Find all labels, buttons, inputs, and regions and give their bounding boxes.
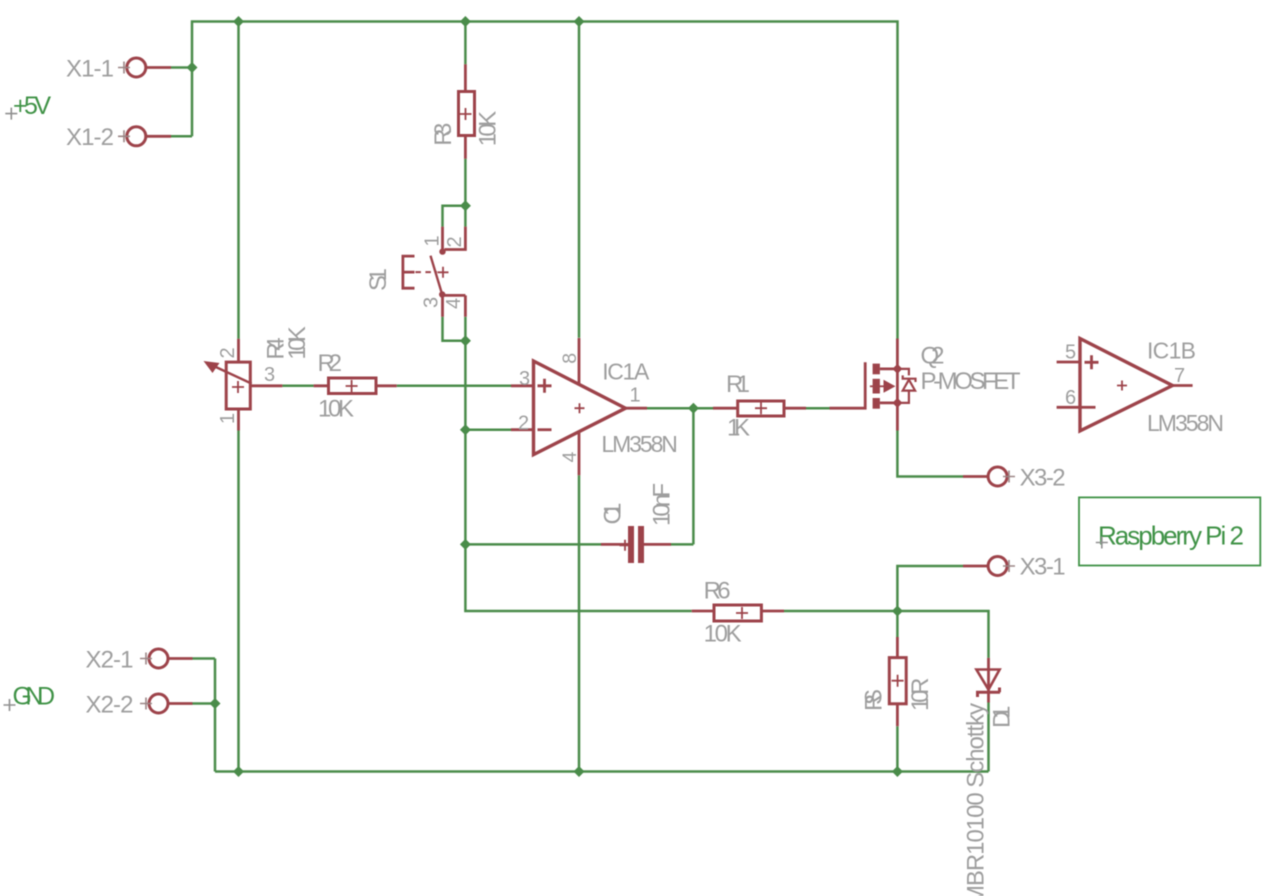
- svg-text:10K: 10K: [704, 621, 742, 648]
- svg-text:R3: R3: [430, 123, 457, 146]
- svg-text:7: 7: [1174, 365, 1185, 387]
- wire R1 to gate: [806, 407, 830, 410]
- connector X3-1: [988, 557, 1007, 576]
- wire R6 right to junction: [784, 610, 897, 613]
- node junction X2-2: [210, 698, 221, 709]
- wire X2-2: [193, 702, 216, 705]
- svg-text:R1: R1: [726, 371, 750, 398]
- op-amp IC1B: [1057, 362, 1193, 407]
- svg-text:+5V: +5V: [13, 92, 51, 120]
- wire X1-1 to vertical: [171, 66, 192, 69]
- svg-text:LM358N: LM358N: [1147, 410, 1224, 436]
- svg-text:5: 5: [1065, 342, 1076, 364]
- svg-text:R6: R6: [704, 578, 731, 605]
- node junction top rail at x=465: [460, 16, 471, 27]
- transistor Q2 P-MOSFET: [830, 362, 866, 408]
- connector X2-2: [149, 694, 168, 713]
- svg-text:1: 1: [422, 235, 444, 246]
- switch S1: [443, 227, 466, 250]
- svg-text:C1: C1: [599, 503, 626, 525]
- svg-text:IC1B: IC1B: [1147, 338, 1196, 364]
- wire X1-2 to vertical: [171, 135, 192, 138]
- svg-text:D1: D1: [988, 706, 1015, 729]
- connector X2-1: [149, 649, 168, 668]
- wire D1 branch: [897, 611, 988, 658]
- svg-text:10nF: 10nF: [648, 483, 675, 526]
- wire X3-1: [897, 566, 963, 611]
- node junction GND rail x=238.5: [233, 766, 244, 777]
- wire D1 bottom: [987, 703, 990, 772]
- potentiometer R4: [237, 339, 240, 431]
- connector X1-1: [127, 58, 146, 77]
- svg-text:GND: GND: [13, 683, 56, 711]
- wire IC1A pin8 supply: [578, 22, 581, 338]
- svg-text:6: 6: [1065, 387, 1076, 409]
- svg-text:X3-1: X3-1: [1020, 554, 1066, 581]
- resistor R6: [692, 610, 784, 613]
- node junction S1 bottom: [460, 335, 471, 346]
- op-amp IC1A: [511, 338, 647, 475]
- svg-text:RS: RS: [861, 689, 888, 711]
- connector origin cross X1-2: [118, 130, 130, 142]
- wire S1 bottom bracket: [443, 317, 466, 341]
- svg-text:8: 8: [559, 353, 581, 364]
- svg-text:LM358N: LM358N: [601, 431, 678, 457]
- wire left vertical upper (to R4): [237, 22, 240, 339]
- wire R3 bottom to S1: [464, 159, 467, 206]
- wire output down to C1 right: [692, 408, 695, 544]
- wire RS bottom: [896, 726, 899, 771]
- svg-text:10K: 10K: [284, 326, 311, 359]
- wire IC1A pin4 to GND rail: [578, 475, 581, 771]
- node junction R6/X3-1/RS/D1: [892, 606, 903, 617]
- node junction GND rail x=897.4: [892, 766, 903, 777]
- resistor R2: [314, 384, 397, 387]
- wire to IC1A pin2: [465, 428, 511, 431]
- node junction GND rail x=579: [574, 766, 585, 777]
- node junction S1 top: [460, 200, 471, 211]
- svg-text:R2: R2: [318, 350, 343, 377]
- svg-text:10K: 10K: [475, 111, 502, 147]
- frame Raspberry Pi 2 box: [1079, 497, 1260, 565]
- svg-text:X2-2: X2-2: [86, 692, 134, 719]
- wire mid vertical S1 to R6: [465, 341, 691, 611]
- connector X1-2: [127, 127, 146, 146]
- connector origin cross X3-2: [1003, 471, 1015, 483]
- connector origin cross X3-1: [1003, 560, 1015, 572]
- wire IC1A output: [647, 407, 713, 410]
- svg-text:3: 3: [421, 297, 443, 308]
- node junction C1 left: [460, 539, 471, 550]
- resistor R1: [713, 407, 806, 410]
- svg-text:2: 2: [217, 347, 239, 358]
- wire C1 left: [465, 543, 601, 546]
- svg-text:X3-2: X3-2: [1020, 465, 1066, 492]
- node junction output: [688, 403, 699, 414]
- connector origin cross X2-2: [140, 698, 152, 710]
- node junction top rail at x=579: [574, 16, 585, 27]
- wire C1 right: [671, 543, 693, 546]
- svg-text:3: 3: [519, 368, 530, 390]
- resistor RS: [896, 637, 899, 726]
- wire X2-1: [193, 657, 216, 660]
- diode D1: [987, 658, 990, 703]
- svg-text:2: 2: [518, 413, 529, 435]
- wire RS top: [896, 611, 899, 637]
- svg-text:X1-1: X1-1: [66, 56, 114, 83]
- connector origin cross X2-1: [140, 653, 152, 665]
- wire R3 top: [464, 22, 467, 65]
- svg-text:1: 1: [630, 385, 641, 407]
- node junction inverting input: [460, 424, 471, 435]
- wire R2 to IC1A pin3: [397, 385, 511, 388]
- svg-text:IC1A: IC1A: [602, 359, 650, 385]
- wire X3-2 from source: [897, 431, 963, 477]
- svg-text:10R: 10R: [907, 678, 934, 712]
- connector X3-2: [988, 467, 1007, 486]
- svg-text:2: 2: [444, 236, 466, 247]
- node junction X1-1: [187, 62, 198, 73]
- wire GND rail: [215, 659, 989, 772]
- connector origin cross X1-1: [118, 62, 130, 74]
- svg-text:3: 3: [264, 364, 275, 386]
- wire S1 top bracket: [443, 206, 466, 227]
- resistor R3: [464, 64, 467, 158]
- svg-text:1K: 1K: [727, 415, 750, 442]
- node junction top rail at x=238.5: [233, 16, 244, 27]
- svg-text:10K: 10K: [318, 396, 354, 423]
- svg-text:S1: S1: [365, 268, 392, 291]
- svg-text:P-MOSFET: P-MOSFET: [921, 368, 1021, 395]
- wire R4 wiper to R2: [282, 385, 313, 388]
- wire +5V top rail: [192, 22, 898, 339]
- svg-text:Raspberry Pi 2: Raspberry Pi 2: [1098, 521, 1244, 551]
- svg-text:4: 4: [443, 298, 465, 309]
- capacitor C1: [601, 543, 671, 546]
- wire left vertical lower (R4 to GND rail): [237, 431, 240, 772]
- svg-text:X2-1: X2-1: [86, 647, 134, 674]
- svg-text:MBR10100 Schottky: MBR10100 Schottky: [963, 703, 990, 896]
- svg-text:Q2: Q2: [921, 343, 945, 370]
- svg-text:4: 4: [559, 452, 581, 463]
- svg-text:1: 1: [217, 413, 239, 424]
- svg-text:X1-2: X1-2: [66, 124, 114, 151]
